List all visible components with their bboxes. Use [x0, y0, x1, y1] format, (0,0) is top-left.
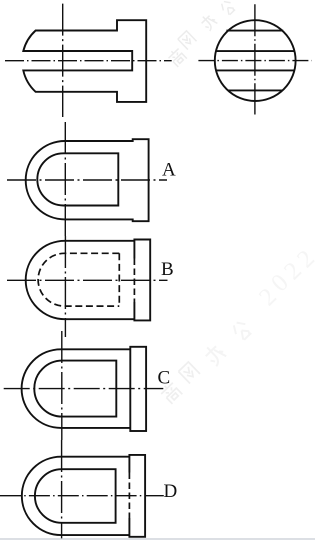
watermark 商网办公 (top) — [166, 0, 236, 68]
option C inner contour — [34, 361, 116, 417]
svg-text:B: B — [161, 259, 174, 280]
option C flange rectangle — [130, 347, 146, 431]
option D flange left edge hidden part — [128, 473, 130, 519]
side view slot bottom chord — [216, 69, 294, 71]
option D body outline — [22, 457, 130, 535]
side view horizontal centerline — [198, 60, 311, 62]
side view slot top chord — [216, 50, 295, 52]
option C body outline — [22, 349, 131, 428]
bottom separator line — [0, 538, 315, 539]
side view chord top — [226, 30, 283, 32]
svg-text:C: C — [158, 368, 171, 389]
option D inner contour — [35, 469, 116, 523]
option B body outline — [26, 241, 135, 319]
option C horizontal centerline — [4, 388, 164, 390]
side view chord bottom — [228, 89, 283, 91]
option A outer outline with flange — [26, 139, 149, 221]
option A inner contour — [37, 153, 118, 205]
option B flange rectangle solid part — [134, 240, 150, 321]
option B inner hidden contour right edge — [118, 253, 120, 306]
front view vertical centerline — [62, 4, 64, 117]
option A vertical centerline — [64, 122, 66, 236]
option D horizontal centerline — [0, 495, 164, 497]
front view horizontal centerline — [5, 60, 172, 62]
front view outline with slot — [23, 20, 146, 102]
option B flange left edge hidden part — [133, 259, 135, 303]
option A horizontal centerline — [7, 179, 167, 181]
option C vertical centerline — [61, 331, 63, 440]
side view vertical centerline — [254, 4, 256, 114]
svg-text:D: D — [164, 481, 178, 502]
side view circle — [215, 20, 296, 101]
watermark 商网办公 (middle) — [159, 319, 253, 405]
option B vertical centerline — [64, 236, 66, 337]
option D vertical centerline — [61, 440, 63, 539]
svg-text:A: A — [162, 160, 176, 181]
option B horizontal centerline — [7, 279, 168, 281]
option B inner hidden contour — [38, 253, 119, 306]
option D flange rectangle solid part — [129, 455, 145, 537]
watermark 2022- (right) — [254, 235, 320, 311]
